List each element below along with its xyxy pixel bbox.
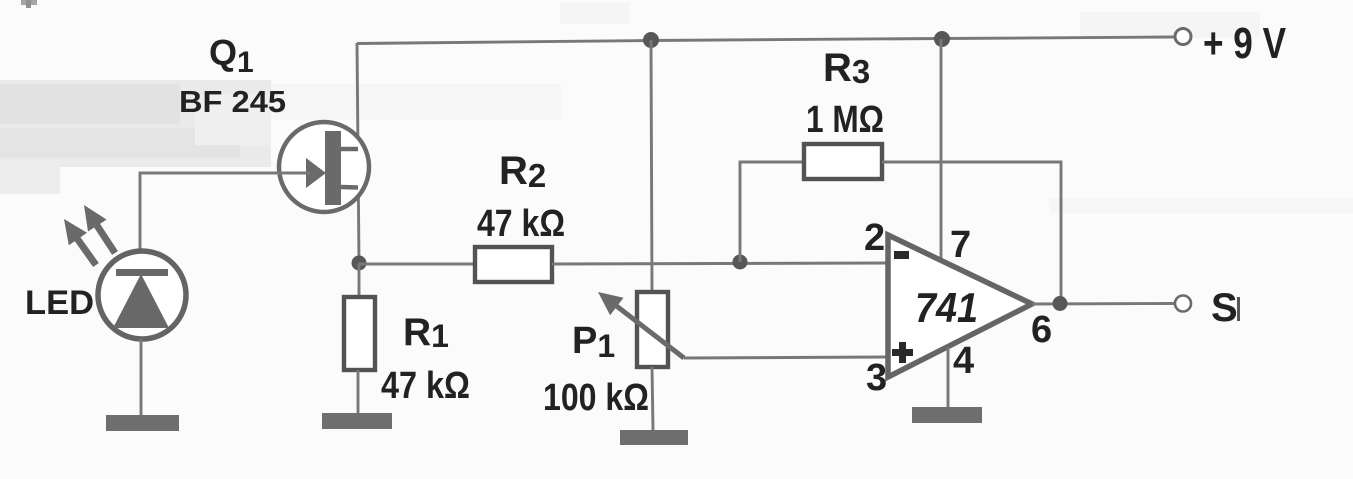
node rail junction P1 [643,32,659,48]
wire junction to R1 [358,263,361,297]
node source junction [352,256,367,271]
svg-text:47 kΩ: 47 kΩ [477,203,565,245]
terminal +9V [1175,29,1191,45]
ground under P1 [620,430,688,445]
svg-text:R1: R1 [403,311,449,354]
potentiometer P1 [637,292,668,367]
node output junction [1053,296,1068,311]
svg-text:R3: R3 [823,46,870,90]
wire output [1032,302,1175,305]
resistor R1 [344,297,375,370]
wire gate [140,173,310,251]
svg-text:1 MΩ: 1 MΩ [806,99,884,141]
wire junction to R2 [359,263,475,266]
LED emission arrow 1 [84,205,115,253]
ground under LED [106,415,179,431]
terminal output [1175,296,1191,312]
wire R3 to output node [882,162,1061,303]
ground under op-amp [912,407,982,423]
wire pin 4 to ground [947,347,950,408]
node feedback tap [733,255,748,270]
wire +9V rail [357,37,1175,44]
svg-text:+ 9 V: + 9 V [1203,19,1287,68]
wire P1 to ground [652,367,653,430]
partial letter after S [1237,297,1240,321]
wire R2 to op-amp pin 2 [552,263,888,264]
svg-text:6: 6 [1031,309,1052,351]
svg-text:741: 741 [915,284,978,331]
svg-text:BF 245: BF 245 [179,84,286,119]
resistor R3 [804,144,882,179]
P1 wiper arrow [598,292,684,358]
svg-text:7: 7 [950,224,971,266]
wire drain-source vertical [357,43,359,263]
node rail junction pin7 [934,31,950,47]
svg-text:4: 4 [953,340,974,382]
plus sign pin 3 [892,342,913,363]
wire rail to pin 7 [940,39,943,261]
minus sign pin 2 [894,251,909,259]
wire LED to ground [140,339,143,416]
wire wiper to pin 3 [684,357,888,358]
ground under R1 [322,413,392,429]
scan artifact band [0,80,271,167]
svg-text:3: 3 [866,357,887,399]
svg-text:100 kΩ: 100 kΩ [543,377,649,419]
svg-text:S: S [1211,286,1238,330]
resistor R2 [475,247,552,282]
op-amp U1 741 [888,235,1032,377]
LED emission arrow 2 [64,219,96,265]
wire rail to P1 [651,40,652,292]
svg-text:47 kΩ: 47 kΩ [381,365,470,407]
wire tap to R3 [740,162,804,262]
svg-text:2: 2 [864,217,885,259]
LED D1 [98,251,186,339]
svg-text:LED: LED [25,284,94,322]
wire R1 to ground [357,370,360,414]
transistor Q1 [279,122,369,212]
